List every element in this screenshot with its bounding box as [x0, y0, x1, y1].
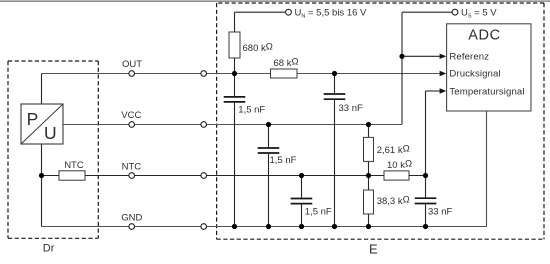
- svg-text:38,3 kΩ: 38,3 kΩ: [377, 195, 410, 207]
- svg-text:1,5 nF: 1,5 nF: [270, 155, 297, 166]
- svg-text:VCC: VCC: [121, 110, 141, 121]
- svg-text:Referenz: Referenz: [449, 52, 489, 63]
- svg-text:UN = 5,5 bis 16 V: UN = 5,5 bis 16 V: [295, 8, 368, 20]
- svg-text:E: E: [369, 241, 378, 256]
- svg-text:NTC: NTC: [64, 160, 84, 171]
- svg-text:GND: GND: [121, 212, 142, 223]
- svg-text:P: P: [27, 109, 39, 129]
- svg-text:33 nF: 33 nF: [428, 206, 452, 217]
- svg-text:OUT: OUT: [122, 59, 142, 70]
- svg-text:1,5 nF: 1,5 nF: [305, 207, 332, 218]
- svg-text:Temperatursignal: Temperatursignal: [449, 87, 524, 98]
- svg-text:10 kΩ: 10 kΩ: [387, 159, 412, 171]
- svg-text:ADC: ADC: [468, 28, 500, 44]
- svg-text:Drucksignal: Drucksignal: [449, 69, 500, 80]
- svg-text:1,5 nF: 1,5 nF: [238, 104, 265, 115]
- svg-text:Dr: Dr: [43, 242, 55, 254]
- svg-text:U: U: [44, 123, 57, 143]
- svg-text:33 nF: 33 nF: [339, 103, 363, 114]
- svg-text:US = 5 V: US = 5 V: [461, 8, 497, 20]
- svg-text:680 kΩ: 680 kΩ: [243, 42, 273, 54]
- svg-text:2,61 kΩ: 2,61 kΩ: [377, 144, 410, 156]
- svg-text:68 kΩ: 68 kΩ: [274, 57, 299, 69]
- svg-text:NTC: NTC: [122, 162, 142, 173]
